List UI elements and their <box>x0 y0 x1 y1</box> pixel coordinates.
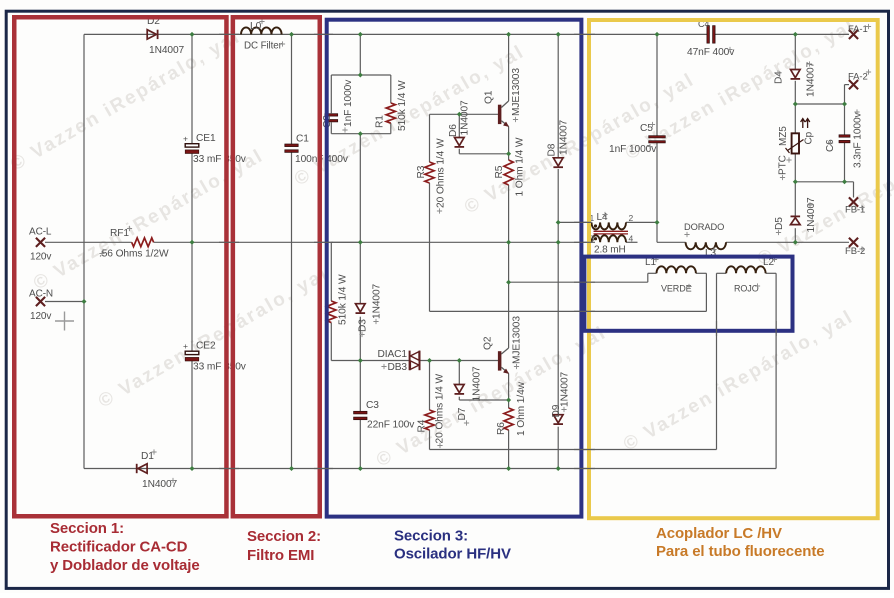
svg-text:Para el tubo fluorecente: Para el tubo fluorecente <box>656 543 824 560</box>
node diac / D3 <box>358 358 363 363</box>
wire D8 D9 column <box>557 242 559 414</box>
svg-text:20 Ohms 1/4 W: 20 Ohms 1/4 W <box>436 138 447 208</box>
wire column D3 lower <box>359 317 361 361</box>
svg-text:AC-N: AC-N <box>29 289 53 300</box>
section 2 box <box>233 17 320 516</box>
diac DIAC1 DB3 <box>409 351 411 371</box>
svg-text:1N4007: 1N4007 <box>149 45 185 56</box>
wire C5 to dorado corner <box>656 222 658 242</box>
svg-text:22nF 100v: 22nF 100v <box>367 420 415 431</box>
svg-text:33 mF 350v: 33 mF 350v <box>193 154 247 165</box>
svg-text:R4: R4 <box>417 419 428 432</box>
terminal FA-1 <box>849 30 858 39</box>
svg-text:47nF 400v: 47nF 400v <box>687 47 735 58</box>
wire R2 feed <box>330 242 332 301</box>
node C6 bottom <box>842 179 847 184</box>
wire Q2 collector column <box>508 242 510 348</box>
svg-text:+: + <box>183 341 188 351</box>
capacitor C4 47nF <box>707 26 710 44</box>
node Q2 collector / L1 feedback <box>506 280 511 285</box>
lamp coils blue box <box>584 257 792 331</box>
svg-text:MZ5: MZ5 <box>778 126 789 146</box>
inductor L0 DC Filter <box>241 27 282 34</box>
transistor Q1 MJE13003 <box>498 105 502 124</box>
wire FA2 horizontal <box>795 103 844 105</box>
section 3 box <box>327 20 582 517</box>
wire loop top <box>331 74 391 76</box>
svg-text:1N4007: 1N4007 <box>472 366 483 402</box>
svg-text:510k 1/4 W: 510k 1/4 W <box>338 274 349 325</box>
wire CE2 column top <box>191 242 193 351</box>
wire dorado row left <box>657 241 686 243</box>
watermark layer <box>7 15 894 471</box>
wire L4 pin2 lead <box>626 221 657 223</box>
wire D7 feed <box>458 361 460 385</box>
svg-text:MJE13003: MJE13003 <box>511 68 522 116</box>
wire left column AC-N <box>83 34 85 301</box>
wire CE1 column bottom <box>191 154 193 243</box>
capacitor C5 <box>649 136 666 138</box>
wire D8 feed <box>557 34 559 157</box>
svg-text:DB3: DB3 <box>387 362 407 373</box>
svg-text:D1: D1 <box>141 451 154 462</box>
svg-text:510k 1/4 W: 510k 1/4 W <box>397 80 408 131</box>
wire L4 pin1 lead <box>558 221 591 223</box>
node D4 / FA-2 row <box>793 101 798 106</box>
wire R6 feed <box>508 400 510 408</box>
diode D3 <box>356 304 366 312</box>
inductor L2 ROJO <box>726 266 765 273</box>
wire C6 top <box>844 104 846 136</box>
svg-text:20 Ohms 1/4 W: 20 Ohms 1/4 W <box>435 374 446 444</box>
wire column D3 upper <box>359 134 361 304</box>
node diac / D7 <box>457 358 462 363</box>
svg-text:C3: C3 <box>366 400 379 411</box>
node Q1 emitter / D6 / R5 <box>506 151 511 156</box>
wire L1 upper feedback <box>509 281 648 283</box>
capacitor C2 <box>325 114 338 116</box>
wire L2 right lead <box>766 272 777 274</box>
wire C1 column bottom <box>291 152 293 468</box>
wire AC-N lead <box>45 301 84 303</box>
resistor R4 <box>425 410 434 430</box>
wire R4 to corner <box>429 430 431 450</box>
resistor R6 <box>504 408 513 430</box>
node mid rail / R5-Q2 <box>506 240 511 245</box>
svg-text:VERDE: VERDE <box>661 284 692 294</box>
svg-text:L1: L1 <box>645 257 656 268</box>
wire left column to bottom <box>83 302 85 469</box>
wire L1 right lead <box>696 272 707 274</box>
svg-text:R3: R3 <box>416 165 427 178</box>
wire C3 feed <box>359 361 361 412</box>
svg-text:L0: L0 <box>250 21 262 32</box>
capacitor CE2 <box>185 351 199 354</box>
wire mid rail RF1 to L4 pin3 <box>154 241 592 243</box>
svg-text:1N4007: 1N4007 <box>806 197 817 233</box>
svg-text:1 Ohm 1/4 W: 1 Ohm 1/4 W <box>515 137 526 196</box>
node C5 / L4 pin2 <box>655 220 660 225</box>
wire loop right top <box>390 75 392 103</box>
wire loop left top <box>330 75 332 113</box>
svg-text:D5: D5 <box>774 217 785 230</box>
svg-text:33 mF 350v: 33 mF 350v <box>193 362 247 373</box>
svg-text:C1: C1 <box>296 134 309 145</box>
wire R2 branch top <box>331 241 360 243</box>
node bottom rail / R6 <box>506 466 511 471</box>
svg-text:Seccion 1:: Seccion 1: <box>50 520 124 537</box>
inductor L1 VERDE <box>657 266 696 273</box>
resistor R1 <box>386 103 395 123</box>
capacitor CE1 <box>185 144 199 147</box>
svg-text:FA-1: FA-1 <box>848 24 868 35</box>
wire FB1 drop <box>853 182 855 198</box>
wire R4 to L2 row <box>430 449 717 451</box>
node mid rail / D3 column <box>358 240 363 245</box>
node loop top <box>358 72 363 77</box>
capacitor C1 <box>285 144 298 147</box>
svg-text:DIAC1: DIAC1 <box>377 349 407 360</box>
terminal AC-N <box>36 297 45 306</box>
resistor R5 <box>504 160 513 185</box>
wire R5 to rail <box>508 185 510 242</box>
svg-text:+: + <box>183 134 188 144</box>
origin cross <box>55 312 74 331</box>
wire D6 feed <box>458 114 460 137</box>
node dorado / D5 <box>793 240 798 245</box>
wire R5 feed <box>508 154 510 160</box>
wire dorado row right <box>726 241 795 243</box>
svg-text:1 Ohm 1/4w: 1 Ohm 1/4w <box>516 381 527 436</box>
svg-text:120v: 120v <box>30 252 51 263</box>
wire diac row right <box>420 360 498 362</box>
thermistor PTC MZ5 <box>792 133 799 153</box>
terminal FB-2 <box>849 238 858 247</box>
node D8 / L4 pin1 <box>556 220 561 225</box>
transistor Q2 MJE13003 <box>498 351 502 370</box>
svg-text:DC Filter: DC Filter <box>244 41 283 52</box>
wire C1 column top <box>291 34 293 144</box>
svg-text:Q2: Q2 <box>483 336 494 350</box>
svg-text:R1: R1 <box>375 115 386 128</box>
svg-text:120v: 120v <box>30 311 51 322</box>
wire L4 pin4 stub <box>626 241 638 243</box>
svg-text:D6: D6 <box>448 124 459 137</box>
svg-text:Rectificador CA-CD: Rectificador CA-CD <box>50 539 188 556</box>
node bottom rail / C3 <box>358 466 363 471</box>
capacitor C3 <box>354 411 367 414</box>
svg-text:Q1: Q1 <box>484 90 495 104</box>
wire FA2 riser <box>844 85 846 104</box>
node top rail / loop <box>358 32 363 37</box>
svg-text:R5: R5 <box>494 165 505 178</box>
diode D6 <box>455 138 465 146</box>
svg-text:3.3nF 1000v: 3.3nF 1000v <box>853 111 864 168</box>
wire PTC out <box>794 154 796 217</box>
node PTC / FB-1 row <box>793 179 798 184</box>
wire C6 bottom <box>844 142 846 182</box>
svg-text:1N4007: 1N4007 <box>806 61 817 97</box>
wire bottom rail <box>84 468 776 470</box>
wire FA2 lead <box>845 84 850 86</box>
node top rail / D8 <box>556 32 561 37</box>
wire R3 feed <box>429 114 431 162</box>
node mid rail / CE junction <box>190 240 195 245</box>
svg-text:Filtro EMI: Filtro EMI <box>247 547 314 564</box>
wire loop bottom <box>331 133 391 135</box>
wire Q2 emitter <box>508 374 510 401</box>
svg-text:1N4007: 1N4007 <box>559 119 570 155</box>
wire C3 to rail <box>359 420 361 469</box>
wire L2 left column <box>716 273 718 449</box>
svg-text:Seccion 3:: Seccion 3: <box>394 528 468 545</box>
diode D9 <box>553 415 563 423</box>
node top rail / Q1 collector <box>506 32 511 37</box>
section 1 box <box>14 17 226 516</box>
svg-text:MJE13003: MJE13003 <box>512 316 523 364</box>
wire Q1 emitter <box>508 127 510 154</box>
svg-text:Acoplador LC /HV: Acoplador LC /HV <box>656 525 782 542</box>
wire R3 to corner <box>429 183 431 311</box>
wire loop feed <box>359 34 361 75</box>
wire FB1 row <box>795 181 853 183</box>
svg-text:L4: L4 <box>597 212 608 223</box>
terminal AC-L <box>36 238 45 247</box>
wire R2 to diac row <box>330 323 332 361</box>
node loop bottom <box>358 131 363 136</box>
node top rail / D4 <box>793 32 798 37</box>
wire D4 out <box>794 81 796 134</box>
wire Q1 collector <box>508 34 510 101</box>
wire L1 left lead <box>648 272 657 274</box>
wire L2 right column <box>775 273 777 468</box>
wire FB-2 lead <box>795 241 849 243</box>
resistor R3 <box>425 162 434 183</box>
wire L1 left drop <box>647 273 649 282</box>
wire L1 lower feedback <box>430 310 707 312</box>
wire R4 feed <box>429 361 431 411</box>
wire D7 out <box>458 397 460 400</box>
resistor R2 <box>327 301 336 323</box>
wire loop right bottom <box>390 123 392 134</box>
wire diac row left <box>331 360 409 362</box>
node diac / R4 <box>427 358 432 363</box>
svg-text:2.8 mH: 2.8 mH <box>594 245 626 256</box>
svg-text:.56 Ohms 1/2W: .56 Ohms 1/2W <box>99 249 169 260</box>
wire D4 feed <box>794 34 796 69</box>
svg-text:1N4007: 1N4007 <box>560 371 571 407</box>
wire L2 left lead <box>717 272 727 274</box>
wire AC-L lead <box>45 241 132 243</box>
diode D4 <box>791 70 801 78</box>
wire overlays crossing borders <box>219 34 776 468</box>
wire D6 to emitter <box>459 153 508 155</box>
diode D5 <box>791 215 801 217</box>
node bottom rail / CE2 <box>190 466 195 471</box>
wire C5 column top <box>656 34 658 136</box>
diode D2 <box>147 30 156 39</box>
node Q2 emitter / D7 / R6 <box>506 397 511 402</box>
svg-text:R6: R6 <box>496 422 507 435</box>
wire L1 right drop <box>705 273 707 311</box>
svg-text:DORADO: DORADO <box>684 222 724 232</box>
node mid rail / D8-D9 <box>556 240 561 245</box>
wire D9 to rail <box>557 427 559 469</box>
node bottom rail / C1 <box>289 466 294 471</box>
svg-text:1nF 1000v: 1nF 1000v <box>343 79 354 127</box>
svg-text:y Doblador de voltaje: y Doblador de voltaje <box>50 557 200 574</box>
terminal FB-1 <box>849 197 858 206</box>
wire D6 out <box>458 149 460 154</box>
node C6 top <box>842 101 847 106</box>
wire top rail right of C4 <box>715 33 849 35</box>
diode D8 <box>553 158 563 166</box>
svg-text:D7: D7 <box>457 407 468 420</box>
svg-text:1N4007: 1N4007 <box>372 283 383 319</box>
node top rail / CE1 <box>190 32 195 37</box>
inductor L3 DORADO <box>686 242 726 249</box>
wire CE2 column bottom <box>191 361 193 469</box>
capacitor C6 <box>839 135 850 137</box>
svg-text:RF1: RF1 <box>110 228 129 239</box>
transformer L4 2.8mH <box>592 222 627 229</box>
node bottom rail / D9 <box>556 466 561 471</box>
svg-text:1N4007: 1N4007 <box>460 100 471 136</box>
terminal FA-2 <box>849 80 858 89</box>
svg-text:D3: D3 <box>358 319 369 332</box>
svg-text:Cp: Cp <box>804 131 815 144</box>
svg-text:2: 2 <box>629 213 634 223</box>
resistor RF1 <box>132 238 154 247</box>
svg-text:AC-L: AC-L <box>29 227 52 238</box>
svg-text:CE2: CE2 <box>196 341 216 352</box>
wire D7 to emitter <box>459 399 508 401</box>
wire D5 out <box>794 228 796 242</box>
svg-text:4: 4 <box>629 234 634 244</box>
acoplador yellow box <box>589 20 878 518</box>
wire top rail <box>84 33 707 35</box>
svg-text:D8: D8 <box>547 143 558 156</box>
wire R6 to rail <box>508 430 510 469</box>
svg-text:CE1: CE1 <box>196 133 216 144</box>
wire C5 column bottom <box>656 143 658 223</box>
node Q1 base / D6 <box>457 112 462 117</box>
svg-text:Oscilador HF/HV: Oscilador HF/HV <box>394 546 511 563</box>
svg-text:PTC: PTC <box>778 155 789 175</box>
diode D7 <box>455 385 465 393</box>
node top rail / C5 <box>655 32 660 37</box>
svg-text:L2: L2 <box>763 257 774 268</box>
svg-text:FA-2: FA-2 <box>848 72 868 83</box>
wire Q1 base row <box>430 113 499 115</box>
svg-text:Seccion 2:: Seccion 2: <box>247 528 321 545</box>
node AC-N / left column <box>82 299 87 304</box>
diode D1 <box>136 464 138 473</box>
wire D8 to L4 node <box>557 169 559 242</box>
wire CE1 column top <box>191 34 193 143</box>
svg-text:ROJO: ROJO <box>734 284 759 294</box>
wire loop left bottom <box>330 122 332 133</box>
node top rail / C1 <box>289 32 294 37</box>
